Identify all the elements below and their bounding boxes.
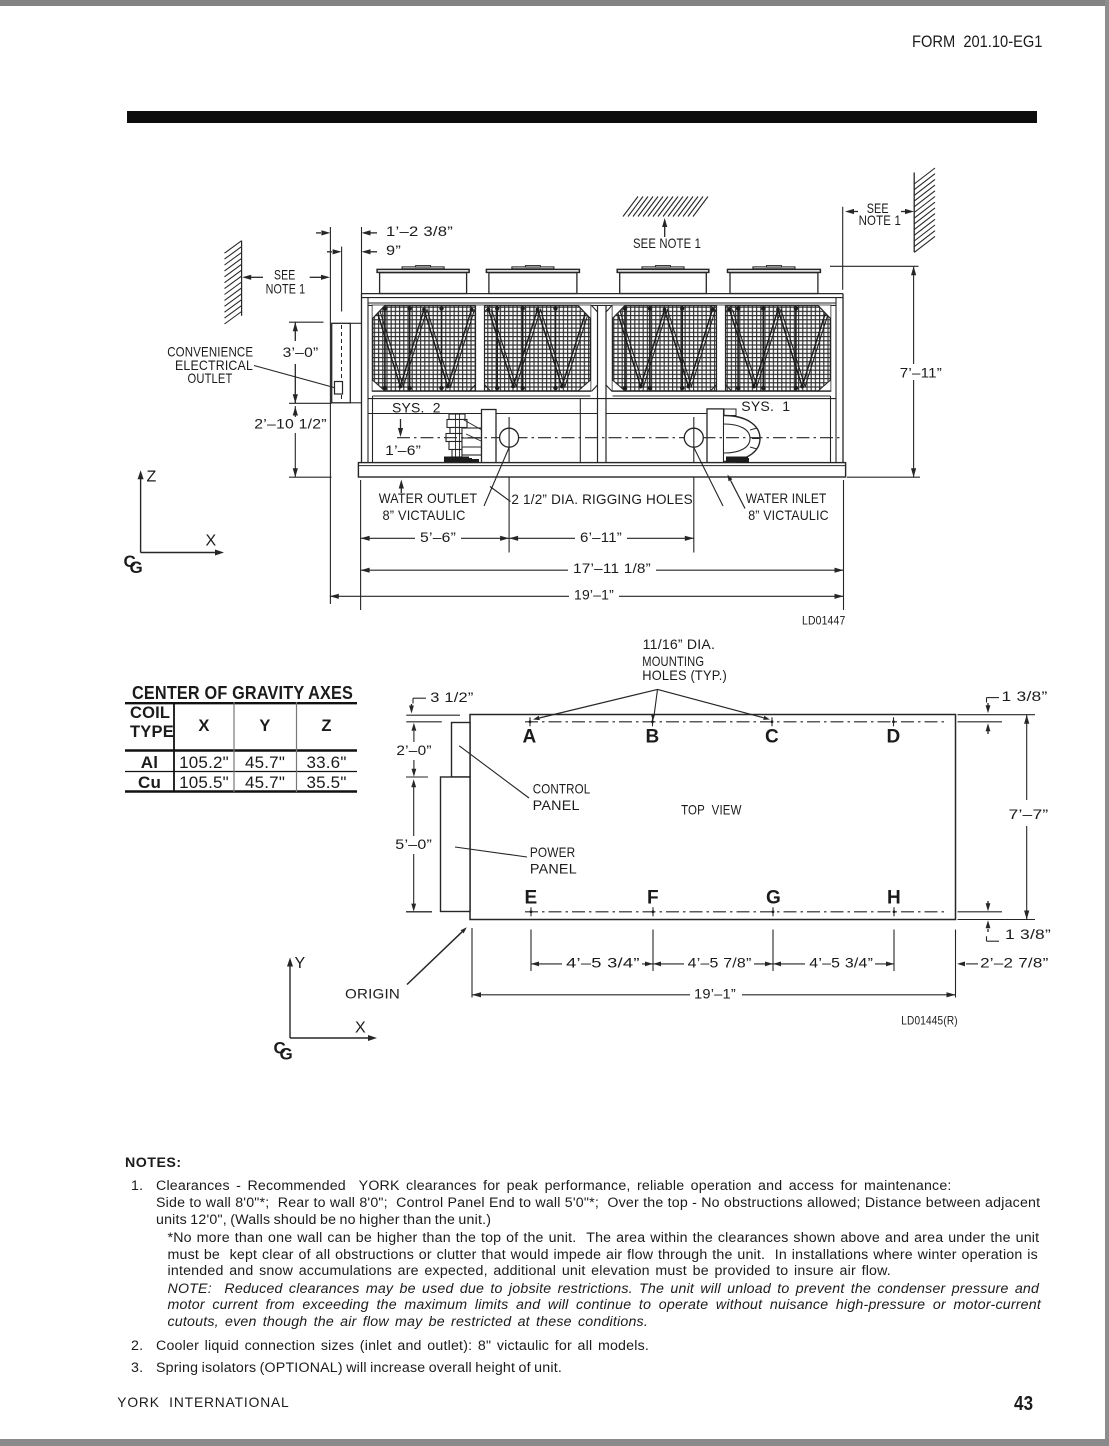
control panel box	[452, 723, 471, 778]
ext right edge bottom	[955, 930, 957, 998]
svg-text:8” VICTAULIC: 8” VICTAULIC	[383, 507, 466, 523]
scanner gray edge bottom	[0, 1439, 1109, 1446]
hole marks bottom	[530, 907, 896, 916]
svg-text:7’–7”: 7’–7”	[1009, 806, 1049, 822]
svg-text:E: E	[525, 887, 538, 908]
leader control panel	[459, 746, 529, 798]
tick 3-0 bottom	[289, 402, 332, 404]
svg-text:6’–11”: 6’–11”	[580, 529, 622, 545]
hole line bottom	[406, 911, 1002, 913]
wall hatch left	[225, 241, 242, 324]
svg-text:B: B	[646, 726, 660, 747]
svg-text:ORIGIN: ORIGIN	[345, 986, 400, 1002]
axis Z	[138, 468, 157, 552]
svg-text:7’–11”: 7’–11”	[900, 364, 942, 380]
base rail	[358, 463, 845, 477]
leaders to holes	[533, 689, 770, 721]
top view drawing	[274, 636, 1052, 1064]
letters E F G H	[525, 887, 901, 908]
arrow water outlet	[399, 480, 404, 494]
gussets left bank	[373, 305, 591, 391]
dim 7'-7"	[1009, 715, 1049, 920]
bracket 3 1/2	[413, 689, 474, 705]
dim 1'-2 3/8"	[316, 223, 453, 239]
mesh bottom rails	[373, 391, 831, 396]
scanner gray edge right	[1105, 0, 1109, 1446]
extension through right hole	[693, 417, 695, 553]
top view rectangle	[470, 715, 956, 920]
outlet panel	[332, 323, 362, 403]
svg-text:LD01447: LD01447	[802, 614, 846, 628]
tick panel split	[406, 776, 428, 778]
power panel box	[441, 777, 471, 912]
extension unit right up	[842, 207, 844, 290]
compressor SYS2	[444, 414, 482, 463]
dim 4'-5 7/8	[653, 954, 773, 972]
svg-text:4’–5 3/4”: 4’–5 3/4”	[566, 954, 640, 970]
zigzag braces right bank	[615, 306, 830, 391]
fan shroud 3	[617, 266, 709, 294]
compressor SYS2 post	[482, 410, 497, 466]
svg-text:11/16” DIA.: 11/16” DIA.	[643, 636, 715, 652]
tick fan top right	[830, 265, 919, 267]
centerline	[397, 437, 843, 439]
svg-text:17’–11 1/8”: 17’–11 1/8”	[573, 560, 651, 576]
svg-text:POWER: POWER	[530, 844, 575, 860]
svg-text:SEE NOTE 1: SEE NOTE 1	[633, 235, 701, 251]
svg-text:PANEL: PANEL	[530, 861, 577, 877]
svg-text:2 1/2” DIA. RIGGING HOLES: 2 1/2” DIA. RIGGING HOLES	[511, 491, 692, 507]
gussets right bank	[613, 305, 831, 391]
label POWER PANEL	[530, 844, 577, 876]
dim 4'-5 3/4 a	[531, 954, 653, 972]
axis X top view	[290, 1019, 377, 1041]
axis X elevation	[141, 532, 224, 555]
arrow 3 1/2	[409, 704, 414, 714]
svg-text:NOTE 1: NOTE 1	[266, 280, 306, 296]
dim 2'-0"	[396, 723, 431, 777]
CG symbol elevation	[124, 552, 144, 577]
unit left edge	[362, 294, 369, 463]
dim 3'-0"	[283, 322, 319, 403]
wall hatch top center	[623, 197, 708, 217]
svg-text:HOLES (TYP.): HOLES (TYP.)	[642, 667, 727, 683]
dim 5'-6"	[361, 529, 510, 546]
header black bar	[127, 111, 1037, 123]
label SEE NOTE 1 right	[859, 200, 901, 228]
svg-text:H: H	[887, 887, 901, 908]
center of gravity table	[132, 682, 384, 704]
svg-text:19’–1”: 19’–1”	[694, 986, 736, 1002]
tick base bottom right	[847, 476, 920, 478]
svg-text:A: A	[523, 726, 537, 747]
ext lines E F G H	[531, 930, 894, 972]
rigging hole right	[684, 428, 703, 447]
rigging hole left	[500, 428, 519, 447]
fan shroud 1	[377, 266, 469, 294]
tick 3-0 top	[289, 321, 324, 323]
coil mesh bank right	[613, 305, 831, 391]
leader power panel	[455, 847, 527, 857]
leader left rigging	[484, 448, 511, 507]
svg-text:3’–0”: 3’–0”	[283, 344, 319, 360]
ext rect top right	[958, 714, 1036, 716]
footer	[117, 1395, 289, 1410]
svg-text:2’–2 7/8”: 2’–2 7/8”	[980, 954, 1049, 970]
dim 7'-11"	[896, 266, 944, 477]
label 11/16 DIA MOUNTING HOLES	[642, 636, 727, 683]
dim 2'-10 1/2"	[254, 406, 327, 477]
fan shroud 2	[486, 266, 579, 294]
tick base bottom left	[289, 476, 332, 478]
arrow left seenote right	[845, 209, 858, 214]
svg-text:SYS. 2: SYS. 2	[392, 399, 441, 415]
dim 1'-6"	[385, 419, 421, 458]
wall hatch right	[914, 168, 935, 252]
label WATER INLET	[746, 490, 829, 523]
svg-text:WATER OUTLET: WATER OUTLET	[379, 490, 478, 506]
center posts	[592, 305, 613, 462]
arrow up to hatch	[662, 218, 667, 237]
svg-text:NOTE 1: NOTE 1	[859, 212, 901, 228]
fan deck rail	[362, 294, 844, 306]
svg-text:19’–1”: 19’–1”	[574, 587, 614, 603]
extension base left	[360, 480, 362, 610]
inner wall dashes	[466, 723, 468, 911]
svg-text:CONTROL: CONTROL	[533, 780, 591, 796]
svg-text:1’–2 3/8”: 1’–2 3/8”	[386, 223, 453, 239]
header form number	[912, 33, 1059, 52]
svg-text:X: X	[206, 532, 217, 549]
svg-text:X: X	[355, 1019, 366, 1036]
elevation view drawing	[124, 168, 945, 628]
dim 5'-0"	[395, 779, 432, 911]
coil mesh bank left	[373, 305, 591, 391]
arrow origin	[407, 932, 462, 985]
tick bottom left	[406, 911, 432, 913]
svg-text:WATER INLET: WATER INLET	[746, 490, 827, 506]
leader outlet	[254, 366, 334, 388]
svg-text:8” VICTAULIC: 8” VICTAULIC	[748, 507, 829, 523]
label CONVENIENCE ELECTRICAL OUTLET	[167, 344, 253, 386]
dim 6'-11"	[509, 529, 694, 546]
label WATER OUTLET	[379, 490, 478, 523]
letters A B C D	[523, 726, 901, 747]
svg-text:D: D	[887, 726, 901, 747]
arrow water inlet	[731, 480, 746, 508]
svg-text:Z: Z	[147, 468, 157, 485]
svg-text:3 1/2”: 3 1/2”	[430, 689, 473, 705]
extension line 9in plane	[341, 247, 343, 312]
outlet box	[335, 382, 343, 395]
svg-text:4’–5 7/8”: 4’–5 7/8”	[688, 954, 752, 970]
svg-text:4’–5 3/4”: 4’–5 3/4”	[809, 954, 873, 970]
lower frame top line	[368, 398, 836, 400]
compressor SYS1 post	[707, 409, 724, 465]
compressor SYS1	[724, 409, 760, 464]
rect top extension left	[406, 714, 460, 716]
dim 1 3/8 top	[986, 688, 1048, 734]
svg-text:1 3/8”: 1 3/8”	[1002, 688, 1048, 704]
hole marks top	[529, 717, 895, 726]
svg-text:G: G	[130, 558, 144, 577]
extension line unit left edge up	[361, 227, 363, 294]
lower frame rails	[368, 413, 707, 415]
scanner gray edge top	[0, 0, 1109, 6]
dim 17'-11 1/8"	[361, 560, 844, 578]
svg-text:LD01445(R): LD01445(R)	[901, 1014, 958, 1028]
arrow left to wall	[242, 275, 263, 280]
unit right edge	[836, 294, 843, 463]
zigzag braces left bank	[375, 306, 590, 391]
extension line leftmost plane	[329, 227, 331, 604]
leader right rigging	[694, 448, 723, 507]
dim 4'-5 3/4 b	[773, 954, 894, 972]
svg-text:9”: 9”	[386, 242, 401, 258]
lower frame verticals	[373, 396, 831, 463]
label CONTROL PANEL	[533, 780, 591, 812]
extension base right	[843, 480, 845, 610]
svg-text:OUTLET: OUTLET	[188, 370, 233, 386]
hole line top	[406, 721, 1002, 723]
svg-text:G: G	[766, 887, 781, 908]
svg-text:SYS. 1: SYS. 1	[741, 398, 790, 414]
axis Y	[287, 955, 306, 1038]
svg-text:TOP VIEW: TOP VIEW	[681, 802, 742, 818]
svg-text:PANEL: PANEL	[533, 797, 580, 813]
svg-text:5’–0”: 5’–0”	[395, 836, 432, 852]
svg-text:G: G	[280, 1045, 294, 1064]
dim 9"	[327, 242, 401, 258]
notes section	[125, 1155, 182, 1171]
arrow right to line	[310, 275, 330, 280]
label SEE NOTE 1 left	[266, 267, 306, 297]
dim 19'-1" top view	[472, 986, 956, 1003]
svg-text:2’–0”: 2’–0”	[396, 742, 431, 758]
dim 2'-2 7/8	[957, 954, 1049, 970]
svg-text:5’–6”: 5’–6”	[420, 529, 456, 545]
svg-text:Y: Y	[295, 955, 306, 972]
svg-text:C: C	[765, 726, 779, 747]
dim 19'-1" elevation	[330, 587, 844, 604]
arrow right seenote right	[901, 209, 914, 214]
fan shroud 4	[728, 266, 821, 294]
wall line left	[241, 241, 243, 316]
svg-text:1 3/8”: 1 3/8”	[1005, 926, 1051, 942]
base feet	[459, 458, 749, 463]
CG symbol top view	[274, 1039, 294, 1064]
svg-text:F: F	[647, 887, 659, 908]
svg-text:1’–6”: 1’–6”	[385, 442, 421, 458]
dim 1 3/8 bottom	[986, 901, 1052, 942]
extension through left hole	[508, 417, 510, 553]
svg-text:2’–10 1/2”: 2’–10 1/2”	[254, 416, 327, 432]
ext corner left	[471, 928, 473, 998]
ext rect bottom right	[958, 919, 1036, 921]
wall line right	[913, 173, 915, 253]
